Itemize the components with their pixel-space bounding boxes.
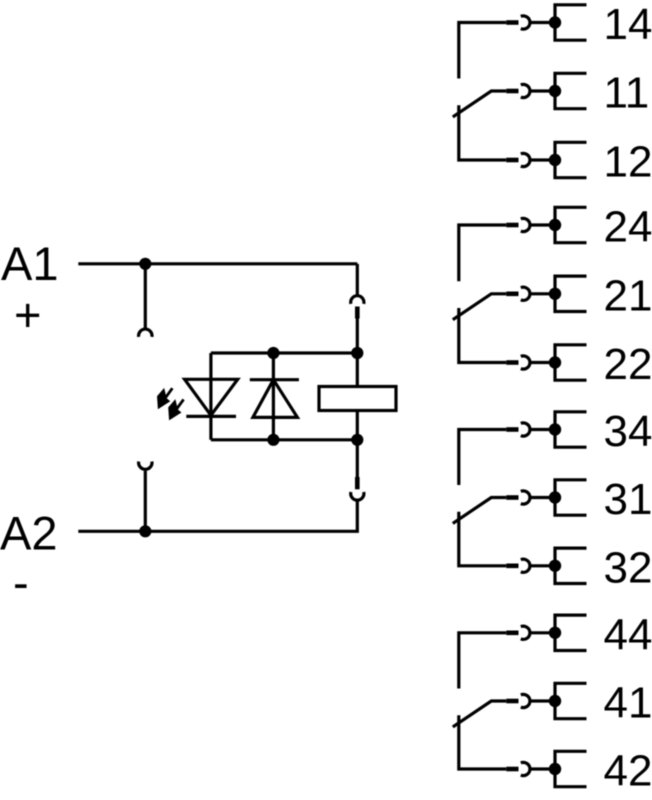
wire socket-41 to terminal bbox=[530, 699, 555, 702]
wire connector to node top bbox=[356, 319, 359, 354]
wire LED branch bbox=[209, 353, 212, 440]
socket contact 11 bbox=[521, 84, 530, 97]
LED D1 light arrow 1 bbox=[157, 388, 172, 409]
terminal 31 bbox=[555, 480, 587, 515]
wire top rail to coil bbox=[356, 353, 359, 387]
socket contact A1 bbox=[139, 329, 152, 337]
terminal 12 bbox=[555, 142, 587, 177]
socket contact 14 bbox=[521, 16, 530, 29]
wire contact group 3 upper bus bbox=[459, 430, 507, 486]
wire connector to A2 rail bbox=[78, 500, 357, 531]
junction A2 bbox=[139, 525, 151, 537]
svg-text:31: 31 bbox=[604, 475, 652, 524]
wire contact group 4 lower bus bbox=[459, 715, 507, 769]
wire socket-21 to terminal bbox=[530, 292, 555, 295]
socket contact coil bottom bbox=[351, 492, 364, 500]
junction 24 bbox=[549, 219, 561, 231]
socket contact 12 bbox=[521, 153, 530, 166]
LED D1 triangle bbox=[185, 379, 238, 415]
socket contact A2 bbox=[139, 462, 152, 470]
pin contact 34 bbox=[506, 427, 518, 432]
terminal 11 bbox=[555, 73, 587, 108]
junction node bottom diode bbox=[267, 434, 279, 446]
svg-text:A2: A2 bbox=[0, 507, 58, 560]
pin contact 22 bbox=[506, 360, 518, 365]
svg-text:21: 21 bbox=[604, 271, 652, 320]
terminal 14 bbox=[555, 5, 587, 40]
switch arm contact 11 bbox=[453, 91, 507, 117]
svg-text:41: 41 bbox=[604, 679, 652, 728]
terminal 22 bbox=[555, 345, 587, 380]
socket contact 44 bbox=[521, 626, 530, 639]
socket contact 41 bbox=[521, 694, 530, 707]
terminal 44 bbox=[555, 615, 587, 650]
wire coil to bottom rail bbox=[356, 411, 359, 440]
socket contact coil top bbox=[351, 296, 364, 304]
junction 14 bbox=[549, 16, 561, 28]
wire diode branch bbox=[272, 353, 275, 440]
pin contact coil top bbox=[355, 307, 360, 319]
junction 31 bbox=[549, 491, 561, 503]
socket contact 24 bbox=[521, 218, 530, 231]
svg-text:34: 34 bbox=[604, 407, 652, 456]
svg-text:A1: A1 bbox=[1, 237, 59, 290]
wire node bottom rail bbox=[211, 438, 357, 441]
pin contact 42 bbox=[506, 767, 518, 772]
pin contact coil bottom bbox=[355, 477, 360, 489]
diode V1 triangle bbox=[253, 380, 298, 418]
junction 34 bbox=[549, 423, 561, 435]
svg-text:12: 12 bbox=[604, 138, 652, 187]
socket contact 42 bbox=[521, 762, 530, 775]
wire A1 rail bbox=[78, 262, 357, 265]
pin contact 41 bbox=[506, 699, 518, 704]
wire contact group 2 upper bus bbox=[459, 225, 507, 281]
socket contact 34 bbox=[521, 423, 530, 436]
terminal 21 bbox=[555, 276, 587, 311]
socket contact 22 bbox=[521, 356, 530, 369]
wire node top rail bbox=[211, 351, 357, 354]
wire socket-42 to terminal bbox=[530, 767, 555, 770]
wire node bottom to connector bbox=[356, 440, 359, 477]
pin contact 24 bbox=[506, 223, 518, 228]
terminal 41 bbox=[555, 683, 587, 718]
terminal 34 bbox=[555, 412, 587, 447]
LED D1 cathode bar bbox=[186, 415, 236, 418]
wire A1 to coil connector bbox=[356, 264, 359, 295]
junction 42 bbox=[549, 763, 561, 775]
pin contact 44 bbox=[506, 631, 518, 636]
switch arm contact 21 bbox=[453, 294, 507, 320]
junction 41 bbox=[549, 695, 561, 707]
wire A1 stub bbox=[144, 264, 147, 330]
junction node top diode bbox=[267, 347, 279, 359]
svg-text:11: 11 bbox=[604, 69, 650, 118]
junction 21 bbox=[549, 288, 561, 300]
wire contact group 3 lower bus bbox=[459, 512, 507, 566]
socket contact 32 bbox=[521, 559, 530, 572]
switch arm contact 31 bbox=[453, 498, 507, 524]
svg-text:32: 32 bbox=[604, 543, 652, 592]
svg-text:14: 14 bbox=[604, 0, 652, 49]
wire socket-22 to terminal bbox=[530, 361, 555, 364]
junction A1 bbox=[139, 258, 151, 270]
svg-text:42: 42 bbox=[604, 747, 652, 796]
svg-text:44: 44 bbox=[604, 610, 652, 659]
diode V1 cathode bar bbox=[250, 378, 299, 381]
socket contact 31 bbox=[521, 491, 530, 504]
switch arm contact 41 bbox=[453, 701, 507, 727]
junction 11 bbox=[549, 85, 561, 97]
wire contact group 1 upper bus bbox=[459, 23, 507, 79]
wire socket-34 to terminal bbox=[530, 428, 555, 431]
junction 32 bbox=[549, 560, 561, 572]
junction 22 bbox=[549, 356, 561, 368]
pin contact 11 bbox=[506, 89, 518, 94]
wire A2 stub bbox=[144, 471, 147, 531]
pin contact 32 bbox=[506, 564, 518, 569]
wire socket-32 to terminal bbox=[530, 564, 555, 567]
junction 12 bbox=[549, 154, 561, 166]
wire socket-24 to terminal bbox=[530, 223, 555, 226]
svg-text:+: + bbox=[14, 288, 41, 341]
junction node top coil bbox=[351, 347, 363, 359]
pin contact 12 bbox=[506, 158, 518, 163]
terminal 24 bbox=[555, 207, 587, 242]
junction 44 bbox=[549, 627, 561, 639]
wire socket-12 to terminal bbox=[530, 158, 555, 161]
wire contact group 2 lower bus bbox=[459, 308, 507, 363]
socket contact 21 bbox=[521, 287, 530, 300]
wire socket-11 to terminal bbox=[530, 89, 555, 92]
wire contact group 1 lower bus bbox=[459, 105, 507, 160]
pin contact 14 bbox=[506, 20, 518, 25]
terminal 32 bbox=[555, 548, 587, 583]
pin contact 21 bbox=[506, 292, 518, 297]
junction node bottom coil bbox=[351, 434, 363, 446]
pin contact 31 bbox=[506, 495, 518, 500]
svg-text:-: - bbox=[13, 556, 29, 609]
wire contact group 4 upper bus bbox=[459, 633, 507, 689]
wire socket-14 to terminal bbox=[530, 21, 555, 24]
LED D1 light arrow 2 bbox=[168, 399, 183, 420]
relay coil K1 bbox=[319, 387, 396, 411]
wire socket-31 to terminal bbox=[530, 496, 555, 499]
terminal 42 bbox=[555, 751, 587, 786]
svg-text:24: 24 bbox=[604, 203, 652, 252]
svg-text:22: 22 bbox=[604, 340, 652, 389]
wire socket-44 to terminal bbox=[530, 631, 555, 634]
